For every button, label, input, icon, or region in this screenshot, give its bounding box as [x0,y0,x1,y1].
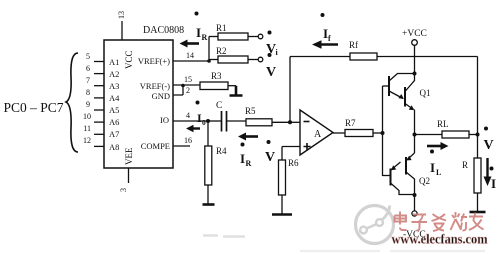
node bases junction [381,131,385,135]
pin 13 stub [121,21,123,40]
svg-text:A6: A6 [109,117,119,127]
svg-text:14: 14 [186,51,194,60]
ground (R6) [272,213,292,216]
IC U2 DAC0808 body [104,40,173,168]
wire plus input [282,147,300,161]
resistor R5 [245,106,290,126]
wire bases vertical [382,86,384,176]
terminal Vi circle [258,34,263,39]
svg-text:R7: R7 [345,118,356,128]
svg-text:R1: R1 [216,23,227,33]
svg-text:Q1: Q1 [420,88,431,98]
svg-text:4: 4 [186,111,190,120]
svg-text:R4: R4 [216,146,227,156]
svg-text:VREF(-): VREF(-) [140,81,170,91]
watermark logo [356,206,394,244]
svg-text:I: I [196,25,201,40]
wire pin15 VREF- [173,84,200,86]
resistor R6 [279,158,300,214]
node Q1 collector [413,72,417,76]
node Q2 collectors junction [413,193,417,197]
resistor R1 [209,23,258,40]
svg-text:7: 7 [86,76,90,85]
node label V (output) [484,127,494,154]
node inverting input junction [288,120,292,124]
svg-text:COMPE: COMPE [141,141,170,151]
svg-text:A2: A2 [109,69,119,79]
terminal V circle [258,57,263,62]
capacitor C [208,101,246,132]
current arrow IR (middle) [238,133,258,169]
node label V (input 2) [266,53,276,80]
svg-text:I: I [491,176,496,191]
svg-text:V: V [266,65,276,80]
node label Vi [266,31,279,58]
current arrow I0 [186,101,206,133]
svg-text:R5: R5 [245,106,256,116]
wire feedback vertical [289,57,291,123]
svg-text:C: C [216,101,222,111]
resistor R (load) [462,158,481,212]
svg-text:13: 13 [117,11,126,19]
svg-text:16: 16 [184,136,192,145]
svg-text:A7: A7 [109,129,119,139]
ground (R3) [230,86,243,96]
wire pin5 A1 [94,61,104,63]
current arrow IL [427,142,449,177]
svg-text:V: V [265,150,275,165]
wire pin2 GND [173,86,183,96]
svg-text:IO: IO [160,115,169,125]
svg-text:A3: A3 [109,81,119,91]
resistor R2 [209,46,258,63]
resistor R4 [205,121,227,204]
wire pin11 A7 [94,133,104,135]
node label V (plus input) [265,140,275,165]
ground (R load) [470,211,486,214]
svg-text:RL: RL [437,119,449,129]
svg-text:VCC: VCC [124,50,134,69]
svg-text:A4: A4 [109,93,120,103]
svg-text:L: L [436,168,441,177]
svg-text:A8: A8 [109,142,119,152]
svg-text:VEE: VEE [124,147,134,165]
wire top rail left [290,56,350,58]
current arrow I (load) [484,158,497,191]
svg-text:R: R [202,33,208,42]
svg-text:3: 3 [119,188,128,192]
wire pin14 VREF+ [173,60,209,62]
node emitters output [413,133,417,137]
resistor R3 [200,71,236,90]
svg-text:Rf: Rf [349,40,358,50]
wire op-amp output [333,132,345,134]
svg-text:6: 6 [86,64,90,73]
svg-text:R2: R2 [216,46,227,56]
ground (R4) [203,203,215,206]
svg-text:I: I [430,160,435,175]
wire emitters to RL [415,134,443,136]
wire R1/R2 junction vertical [208,37,210,62]
svg-text:www.elecfans.com: www.elecfans.com [392,233,488,248]
svg-text:9: 9 [86,100,90,109]
svg-text:12: 12 [83,136,91,145]
wire right branch vertical [477,57,479,159]
wire pin8 A4 [94,97,104,99]
wire pin6 A2 [94,73,104,75]
svg-text:DAC0808: DAC0808 [143,25,184,36]
wire pin16 COMPE stub [173,145,190,147]
svg-text:VREF(+): VREF(+) [138,56,170,66]
wire pin4 IO [173,120,208,122]
current arrow If [312,13,338,49]
node pin14 junction [207,59,211,63]
svg-text:V: V [484,138,494,153]
svg-text:A1: A1 [109,57,119,67]
svg-text:8: 8 [86,88,90,97]
pin 3 stub [128,168,130,183]
svg-text:0: 0 [202,118,206,127]
svg-text:+VCC: +VCC [402,29,427,39]
wire pin12 A8 [94,145,104,147]
-VCC supply [403,195,426,240]
wire top rail right [377,56,478,58]
wire pin7 A3 [94,85,104,87]
svg-text:PC0 – PC7: PC0 – PC7 [4,100,64,115]
svg-text:R: R [246,159,252,168]
bus brace PC0-PC7 [66,53,78,152]
transistor Q1 (compound pair) [383,74,431,135]
wire pin10 A6 [94,121,104,123]
svg-text:I: I [240,151,245,166]
node pin15/pin2 junction [181,84,185,88]
op-amp U1 A [300,110,333,155]
svg-text:f: f [328,34,331,43]
current arrow IR (top) [180,12,208,48]
wire pin9 A5 [94,109,104,111]
svg-text:10: 10 [83,112,91,121]
svg-text:R3: R3 [211,71,222,81]
node IO junction [206,119,210,123]
svg-text:A: A [314,129,322,140]
svg-text:5: 5 [86,52,90,61]
svg-text:A5: A5 [109,105,119,115]
svg-text:15: 15 [184,75,192,84]
svg-text:11: 11 [83,124,91,133]
watermark remnant dashes [203,236,245,237]
svg-text:Q2: Q2 [419,176,430,186]
svg-text:GND: GND [152,91,170,101]
+VCC supply [402,29,427,74]
svg-text:R6: R6 [288,158,299,168]
resistor Rf [349,40,377,60]
svg-text:2: 2 [186,86,190,95]
watermark text 电子发烧友 [395,212,484,232]
svg-text:R: R [462,160,468,170]
resistor RL [437,119,478,138]
resistor R7 [345,118,383,137]
wire minus input [290,121,300,123]
transistor Q2 (compound pair) [383,135,431,196]
node RL output junction [476,133,480,137]
